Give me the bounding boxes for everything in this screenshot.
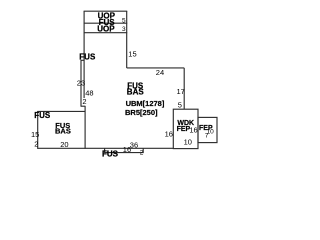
wall east of upper porch box <box>126 11 128 68</box>
svg-text:2: 2 <box>82 97 86 106</box>
svg-text:17: 17 <box>177 87 185 96</box>
wall west of lower-left wing <box>37 111 39 149</box>
svg-text:3: 3 <box>122 26 126 33</box>
svg-text:15: 15 <box>128 50 136 59</box>
svg-text:23: 23 <box>77 79 85 88</box>
svg-text:2: 2 <box>34 140 38 149</box>
wall top of lower-left wing <box>37 110 85 112</box>
svg-text:BAS: BAS <box>55 127 71 136</box>
wall west jog connector <box>81 59 85 61</box>
wall west upper <box>83 11 85 98</box>
svg-text:5: 5 <box>122 17 126 24</box>
wall west lower <box>84 106 86 149</box>
svg-text:BAS: BAS <box>127 88 145 97</box>
svg-text:UOP: UOP <box>97 25 115 34</box>
wall east main <box>183 68 185 109</box>
wall west outer lower <box>80 60 82 107</box>
wall divider under FUS row <box>84 32 128 34</box>
svg-text:2: 2 <box>140 149 144 156</box>
FEP porch box <box>198 117 217 142</box>
svg-text:7: 7 <box>205 133 209 140</box>
svg-text:FUS: FUS <box>34 111 51 120</box>
wall south main <box>37 147 173 149</box>
svg-text:FUS: FUS <box>102 149 119 158</box>
svg-text:FUS: FUS <box>79 53 96 62</box>
wall west jog bottom <box>81 105 86 107</box>
svg-text:BR5[250]: BR5[250] <box>125 108 158 117</box>
WDK deck box <box>173 109 198 148</box>
svg-text:5: 5 <box>178 101 182 110</box>
wall top edge of upper porch box <box>84 10 128 12</box>
svg-text:15: 15 <box>31 130 39 139</box>
wall divider under UOP row <box>84 22 128 24</box>
svg-text:36: 36 <box>130 141 138 150</box>
svg-text:10: 10 <box>184 138 192 147</box>
svg-text:16: 16 <box>165 130 173 139</box>
wall south bump-out <box>105 148 144 152</box>
svg-text:20: 20 <box>60 140 68 149</box>
wall north run east <box>127 67 185 69</box>
svg-text:24: 24 <box>156 68 164 77</box>
svg-text:16: 16 <box>189 126 197 135</box>
